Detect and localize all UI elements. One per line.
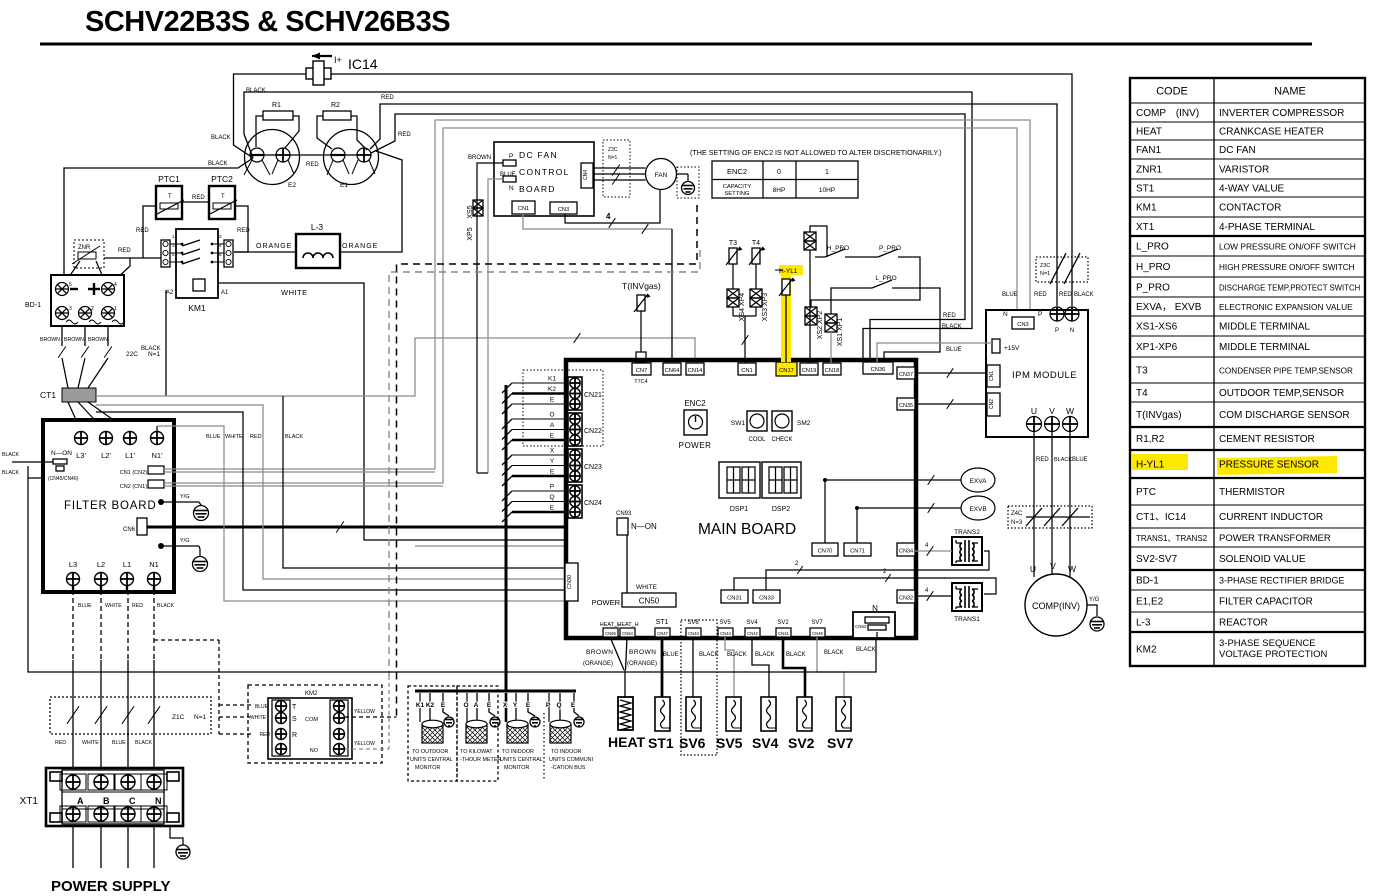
svg-text:B: B [103, 796, 110, 806]
svg-text:K1: K1 [548, 376, 556, 383]
svg-text:H_PRO: H_PRO [827, 245, 849, 252]
switch N-ON (CN45/CN46) [48, 450, 79, 482]
svg-text:COOL: COOL [748, 437, 766, 443]
svg-text:L1: L1 [123, 560, 131, 569]
svg-text:MIDDLE TERMINAL: MIDDLE TERMINAL [1219, 342, 1310, 353]
svg-text:3-PHASE RECTIFIER BRIDGE: 3-PHASE RECTIFIER BRIDGE [1219, 576, 1345, 586]
svg-text:W: W [1066, 406, 1074, 416]
svg-text:BLUE: BLUE [112, 740, 126, 746]
svg-text:CN24: CN24 [584, 500, 602, 507]
svg-text:CN18: CN18 [825, 368, 840, 374]
wire BLACK BD-1 to E2 [64, 158, 253, 286]
comm bus thick [415, 690, 576, 693]
svg-text:ELECTRONIC EXPANSION VALUE: ELECTRONIC EXPANSION VALUE [1219, 302, 1353, 312]
contactor KM1 [161, 229, 233, 313]
terminal L1p [124, 432, 137, 445]
svg-text:T4: T4 [752, 240, 760, 247]
svg-text:T4: T4 [1136, 388, 1148, 399]
svg-text:CONDENSER PIPE TEMP,SENSOR: CONDENSER PIPE TEMP,SENSOR [1219, 367, 1353, 376]
svg-text:POWER: POWER [679, 441, 712, 450]
display DSP2 [762, 462, 801, 513]
svg-text:H-YL1: H-YL1 [779, 268, 798, 275]
fan motor FAN1 [646, 159, 677, 190]
expansion valve EXVB [961, 496, 995, 520]
svg-text:MAIN BOARD: MAIN BOARD [698, 521, 796, 538]
svg-text:BLACK: BLACK [856, 647, 876, 653]
svg-text:8HP: 8HP [773, 187, 786, 194]
svg-text:H-YL1: H-YL1 [1136, 460, 1165, 471]
svg-text:BLUE: BLUE [255, 704, 269, 710]
connector CN42 [745, 628, 760, 637]
thermistor PTC1 [155, 174, 184, 219]
connector XS3 XP3 [750, 289, 762, 307]
svg-text:E: E [550, 505, 555, 512]
wire RED E1 to CN36 (bus B4) [371, 114, 965, 362]
svg-text:0: 0 [777, 169, 781, 176]
svg-text:E: E [441, 702, 446, 709]
svg-text:IC14: IC14 [348, 56, 378, 72]
svg-text:SV5: SV5 [719, 620, 731, 626]
connector CN1 IPM [987, 365, 1000, 387]
connector CN37 [897, 367, 915, 379]
svg-text:BLACK: BLACK [786, 652, 806, 658]
svg-text:CN17: CN17 [779, 368, 794, 374]
connector CN31 [721, 590, 748, 603]
wire SV6 [692, 637, 694, 697]
wire CN32 to TRANS1 [915, 595, 952, 597]
svg-text:N: N [509, 185, 514, 192]
svg-text:RED: RED [55, 740, 66, 746]
svg-text:WHITE: WHITE [636, 584, 658, 591]
wire U to COMP [1033, 431, 1035, 577]
svg-text:SV2-SV7: SV2-SV7 [1136, 554, 1178, 565]
svg-text:DC FAN: DC FAN [1219, 145, 1256, 156]
svg-text:FAN1: FAN1 [1136, 145, 1161, 156]
svg-text:U: U [1031, 406, 1037, 416]
shield cylinder PQE [550, 720, 571, 743]
svg-text:BLACK: BLACK [942, 324, 962, 330]
wire BLACK from KM1 A2 [165, 290, 167, 396]
wire RED to CN30 [96, 405, 565, 579]
wire CN21 pin K1 [512, 382, 568, 384]
svg-text:LOW PRESSURE ON/OFF SWITCH: LOW PRESSURE ON/OFF SWITCH [1219, 242, 1356, 252]
svg-text:FAN: FAN [655, 172, 668, 179]
svg-text:A1: A1 [221, 290, 229, 296]
terminal N IPM [1065, 307, 1079, 321]
svg-text:2: 2 [91, 306, 94, 312]
connector CN62 with fuse N [853, 604, 895, 638]
wire ST1 thick [661, 637, 664, 697]
svg-text:SV6: SV6 [679, 735, 706, 751]
svg-text:COMP(INV): COMP(INV) [1032, 601, 1080, 611]
svg-text:CN1: CN1 [741, 368, 753, 374]
wire RED E1 to IPM P (bus B3) [370, 104, 1057, 306]
svg-text:SW1: SW1 [731, 420, 745, 427]
svg-text:KM2: KM2 [1136, 645, 1157, 656]
svg-text:CN3: CN3 [558, 207, 570, 213]
wire filter to XT1 (dashed colored) [72, 590, 74, 660]
svg-text:XS1-XS6: XS1-XS6 [1136, 322, 1178, 333]
wire BROWN down [477, 163, 503, 473]
connector CN66 [603, 628, 618, 637]
svg-text:CN21: CN21 [584, 392, 602, 399]
heater HEAT [618, 697, 633, 730]
svg-text:N=1: N=1 [148, 351, 160, 358]
svg-text:CN37: CN37 [899, 372, 913, 378]
wire PTC1 left lead RED [143, 206, 156, 258]
svg-text:BLACK: BLACK [135, 740, 153, 746]
svg-text:E2: E2 [288, 182, 296, 189]
svg-text:N=1: N=1 [194, 714, 206, 721]
svg-text:R: R [292, 732, 297, 739]
svg-text:BLUE: BLUE [1002, 292, 1018, 298]
svg-text:(THE SETTING OF ENC2 IS NOT AL: (THE SETTING OF ENC2 IS NOT ALLOWED TO A… [690, 148, 942, 157]
svg-text:RED: RED [237, 228, 250, 234]
svg-text:N1': N1' [151, 451, 163, 460]
wire YELLOW COM [345, 716, 397, 718]
svg-text:3-PHASE SEQUENCE: 3-PHASE SEQUENCE [1219, 638, 1316, 649]
svg-text:ORANGE: ORANGE [256, 243, 292, 250]
svg-text:CT1、IC14: CT1、IC14 [1136, 512, 1186, 523]
svg-text:-CATION BUS: -CATION BUS [551, 765, 586, 771]
connector CN70 [812, 543, 838, 556]
svg-text:-THOUR METER: -THOUR METER [460, 757, 501, 763]
svg-text:RED: RED [306, 162, 319, 168]
wire BLUE to CN30 from N1' [157, 426, 565, 601]
switch SW1 COOL [731, 411, 767, 443]
connector CN71 [844, 543, 871, 556]
dc fan control board [494, 142, 594, 216]
svg-text:PTC: PTC [1136, 487, 1156, 498]
svg-text:BLACK: BLACK [208, 161, 228, 167]
wire E2 to E1 [290, 154, 331, 156]
svg-text:CN30: CN30 [567, 575, 573, 589]
wire W to COMP [1069, 431, 1071, 577]
wire XS1XP1 to CN18 [830, 332, 832, 363]
svg-text:RED: RED [118, 248, 131, 254]
wire CN2(CN1) to IPM CN3 N (gray) [164, 128, 1017, 483]
svg-text:CT1: CT1 [40, 390, 56, 400]
svg-text:P: P [509, 153, 513, 160]
valve SV5 [726, 697, 741, 731]
valve SV2 [797, 697, 812, 731]
cable group PQE [546, 693, 579, 722]
svg-text:CN70: CN70 [818, 549, 833, 555]
svg-text:THERMISTOR: THERMISTOR [1219, 487, 1285, 498]
wire CN1fan to CN64 (gray) [523, 214, 672, 229]
svg-text:T3: T3 [729, 240, 737, 247]
svg-text:SV4: SV4 [746, 620, 758, 626]
connector XS2 XP2 [805, 307, 817, 325]
pressure sensor H-YL1 (yellow highlight) [781, 267, 791, 362]
wire CN34 to TRANS2 [915, 550, 952, 552]
svg-text:CN1: CN1 [989, 371, 995, 381]
svg-text:SOLENOID VALUE: SOLENOID VALUE [1219, 554, 1306, 565]
svg-text:CONTACTOR: CONTACTOR [1219, 203, 1281, 214]
wire CN21 pin K2 [512, 392, 568, 395]
wire PTC1-PTC2 [182, 201, 209, 203]
terminal N1p [151, 432, 164, 445]
svg-text:PTC1: PTC1 [158, 174, 180, 184]
svg-text:BLUE: BLUE [946, 347, 962, 353]
svg-text:CN14: CN14 [688, 368, 704, 374]
resistor R1 [263, 102, 293, 120]
connector XS1 XP1 [825, 314, 837, 332]
connector CN35 [897, 398, 915, 410]
svg-text:TRANS1、TRANS2: TRANS1、TRANS2 [1136, 534, 1208, 543]
svg-text:SV7: SV7 [811, 620, 823, 626]
svg-text:N=3: N=3 [1011, 520, 1023, 526]
connector CN41 [776, 628, 791, 637]
wire CN70 to EXVA [825, 480, 962, 543]
svg-text:BLACK: BLACK [211, 135, 231, 141]
pin +15V [992, 339, 1000, 353]
wire PTC2 right lead RED [234, 206, 248, 252]
svg-text:P: P [1038, 311, 1042, 318]
svg-text:INVERTER COMPRESSOR: INVERTER COMPRESSOR [1219, 108, 1344, 119]
wire CN24 pin Q [512, 501, 568, 503]
svg-text:E1: E1 [340, 182, 348, 189]
svg-text:4: 4 [114, 282, 117, 288]
svg-text:ZNR: ZNR [78, 245, 91, 251]
svg-text:SV5: SV5 [716, 735, 743, 751]
connector CN43 [686, 628, 701, 637]
cable group XYE [503, 693, 535, 722]
wire CN33 to TRANS2 [766, 551, 989, 590]
svg-text:BLACK: BLACK [285, 434, 303, 440]
expansion valve EXVA [961, 468, 995, 492]
wire CN37 to IPM CN1 [915, 372, 987, 374]
svg-text:COM DISCHARGE SENSOR: COM DISCHARGE SENSOR [1219, 410, 1350, 421]
wire BROWN x3 BD-1 to CT1 [61, 326, 63, 346]
svg-text:UNITS COMMUNI: UNITS COMMUNI [549, 757, 593, 763]
connector CN19 [800, 363, 818, 375]
svg-text:HEAT: HEAT [1136, 127, 1162, 138]
svg-text:1: 1 [114, 306, 117, 312]
ground shield K1K2E [444, 717, 454, 727]
svg-text:CN46: CN46 [812, 631, 823, 636]
svg-text:RED: RED [259, 732, 270, 738]
svg-text:ENC2: ENC2 [684, 399, 706, 408]
svg-text:A: A [474, 702, 479, 709]
wire KM1 to L-3 [234, 251, 296, 253]
table ENC2 capacity [712, 161, 858, 198]
svg-text:POWER: POWER [592, 598, 621, 607]
wire WHITE from KM1 A1 [218, 283, 567, 540]
svg-text:RED: RED [381, 95, 394, 101]
ferrite Z4C N=3 [1008, 506, 1092, 528]
svg-text:CN50: CN50 [639, 597, 660, 606]
wire gray companion [415, 545, 567, 547]
svg-text:KM1: KM1 [188, 303, 206, 313]
wire YELLOW NO [345, 748, 389, 750]
svg-text:L2: L2 [97, 560, 105, 569]
svg-text:UNITS CENTRAL: UNITS CENTRAL [500, 757, 543, 763]
svg-text:(CN45/CN46): (CN45/CN46) [48, 476, 79, 482]
wire BLACK 2 [28, 477, 43, 479]
wire L-3 to E1 (orange) [340, 151, 402, 252]
dashed box to-outdoor [408, 686, 457, 781]
compressor COMP(INV) [1025, 574, 1087, 636]
svg-text:Y/G: Y/G [180, 494, 189, 500]
svg-text:CN33: CN33 [759, 596, 774, 602]
svg-text:RED: RED [250, 434, 262, 440]
svg-text:CN41: CN41 [778, 631, 789, 636]
table grid [1130, 78, 1365, 666]
svg-text:X: X [550, 448, 555, 455]
connector XS4 XP4 [727, 289, 739, 307]
svg-text:DISCHARGE TEMP,PROTECT SWITCH: DISCHARGE TEMP,PROTECT SWITCH [1219, 284, 1360, 293]
wire RED ZNR/KM1 [104, 257, 161, 259]
connector CN3 fan [550, 202, 577, 214]
terminal strip CN23 [568, 449, 602, 482]
connector CN17 (yellow highlighted) [776, 362, 797, 376]
dashed zone gray [389, 250, 700, 676]
svg-text:BROWN: BROWN [88, 337, 108, 343]
filter board [43, 420, 174, 592]
svg-text:W: W [1068, 564, 1076, 574]
svg-text:FILTER BOARD: FILTER BOARD [64, 500, 156, 512]
svg-text:WHITE: WHITE [225, 434, 243, 440]
svg-text:CHECK: CHECK [771, 437, 792, 443]
svg-text:CEMENT RESISTOR: CEMENT RESISTOR [1219, 434, 1315, 445]
svg-text:N=1: N=1 [1040, 271, 1050, 277]
ferrite 22C N=1 slashes [58, 346, 66, 357]
terminal strip CN21 [568, 377, 602, 410]
svg-text:CN43: CN43 [688, 631, 699, 636]
svg-text:BROWN: BROWN [629, 649, 656, 656]
svg-text:BLUE: BLUE [78, 603, 92, 609]
svg-text:Q: Q [556, 702, 561, 709]
svg-text:RED: RED [136, 228, 149, 234]
connector CN1 [738, 363, 756, 375]
wire BLUE down [488, 179, 503, 473]
svg-text:E: E [526, 702, 531, 709]
switch SM2 CHECK [771, 411, 810, 443]
terminal L2p [100, 432, 113, 445]
svg-text:BLACK: BLACK [1074, 292, 1094, 298]
svg-text:WHITE: WHITE [281, 288, 308, 297]
svg-text:T(INVgas): T(INVgas) [622, 281, 661, 291]
svg-text:CN32: CN32 [899, 596, 913, 602]
svg-text:(ORANGE): (ORANGE) [583, 661, 613, 667]
svg-text:HIGH PRESSURE ON/OFF SWITCH: HIGH PRESSURE ON/OFF SWITCH [1219, 263, 1355, 272]
svg-text:Z4C: Z4C [1011, 511, 1023, 517]
svg-text:CN23: CN23 [584, 464, 602, 471]
wire BLUE +15V to CN36 [877, 343, 992, 362]
svg-text:RED: RED [398, 132, 411, 138]
svg-text:RED: RED [192, 195, 205, 201]
svg-text:5: 5 [69, 282, 72, 288]
svg-text:BLACK: BLACK [2, 452, 20, 458]
svg-text:YELLOW: YELLOW [354, 741, 375, 747]
svg-text:E: E [550, 433, 555, 440]
svg-text:ST1: ST1 [656, 619, 669, 626]
svg-text:L3': L3' [76, 451, 86, 460]
svg-text:K2: K2 [548, 386, 556, 393]
svg-text:BROWN: BROWN [468, 155, 491, 161]
svg-text:CN71: CN71 [850, 549, 865, 555]
valve SV7 [836, 697, 851, 731]
connector CN2 IPM [987, 393, 1000, 416]
svg-text:3: 3 [69, 306, 72, 312]
capacitor E2 [244, 130, 300, 190]
svg-text:BLACK: BLACK [2, 470, 20, 476]
connector CN4 [581, 163, 593, 188]
connector CN33 [753, 590, 780, 603]
connector CN14 [686, 363, 704, 375]
svg-text:SM2: SM2 [797, 420, 811, 427]
wire CN23 pin Y [512, 465, 568, 467]
svg-text:BLACK: BLACK [755, 652, 775, 658]
svg-text:BROWN: BROWN [64, 337, 84, 343]
wire CN4 to FAN x3 [593, 167, 646, 169]
shield cylinder XYE [507, 720, 528, 743]
svg-text:Y: Y [550, 458, 555, 465]
svg-text:BLACK: BLACK [246, 88, 266, 94]
svg-text:CN62: CN62 [855, 624, 867, 629]
svg-text:K2: K2 [426, 702, 435, 709]
svg-text:Y: Y [513, 702, 518, 709]
ferrite Z1C N=1 [50, 697, 211, 734]
svg-text:E: E [487, 702, 492, 709]
svg-text:CN64: CN64 [665, 368, 681, 374]
wire CN23 pin E [512, 475, 568, 478]
encoder ENC2 POWER [679, 399, 712, 450]
svg-text:1: 1 [825, 169, 829, 176]
wire CN23 pin X [512, 454, 568, 456]
svg-text:OUTDOOR TEMP,SENSOR: OUTDOOR TEMP,SENSOR [1219, 388, 1344, 399]
svg-text:XS3 XP3: XS3 XP3 [762, 293, 769, 322]
svg-text:N—ON: N—ON [51, 450, 72, 457]
wire CN35 to IPM CN2 [915, 403, 987, 405]
connector XS6 upper [804, 232, 816, 250]
wire thick CN6 to CN93 N-ON [147, 526, 617, 529]
wire XS6 to CN19 [809, 250, 811, 363]
svg-text:WHITE: WHITE [250, 715, 267, 721]
svg-text:POWER TRANSFORMER: POWER TRANSFORMER [1219, 533, 1331, 544]
svg-text:WHITE: WHITE [105, 603, 122, 609]
varistor ZNR [72, 240, 104, 268]
svg-text:TO OUTDOOR: TO OUTDOOR [412, 749, 449, 755]
svg-text:I+: I+ [334, 55, 342, 65]
svg-text:BD-1: BD-1 [25, 302, 41, 309]
svg-text:EXVA: EXVA [970, 478, 988, 485]
connector CN32 [897, 590, 915, 603]
svg-text:TO KILOWAT: TO KILOWAT [460, 749, 493, 755]
svg-text:E: E [571, 702, 576, 709]
wire dashed filter to KM2 [154, 639, 219, 641]
svg-text:CAPACITY: CAPACITY [723, 184, 752, 190]
resistor R2 [323, 102, 351, 120]
shield cylinder K1K2E [422, 720, 443, 743]
svg-text:CN31: CN31 [727, 596, 742, 602]
svg-text:XT1: XT1 [20, 796, 39, 807]
svg-text:N: N [1003, 311, 1008, 318]
svg-text:ORANGE: ORANGE [342, 243, 378, 250]
svg-text:A: A [550, 422, 555, 429]
wire T3/T4 to CN1 [732, 307, 734, 316]
svg-text:T(INVgas): T(INVgas) [1136, 410, 1182, 421]
svg-text:SETTING: SETTING [724, 191, 750, 197]
relay KM2 (3-phase sequence protection) [248, 685, 382, 763]
connector CN36 [863, 362, 893, 374]
svg-text:EXVB: EXVB [969, 506, 986, 513]
wire CN22 pin E [512, 439, 568, 442]
wire CN71 to EXVB [857, 508, 962, 543]
svg-text:CRANKCASE HEATER: CRANKCASE HEATER [1219, 127, 1324, 138]
wire CT1 to filter terminals [68, 402, 81, 431]
